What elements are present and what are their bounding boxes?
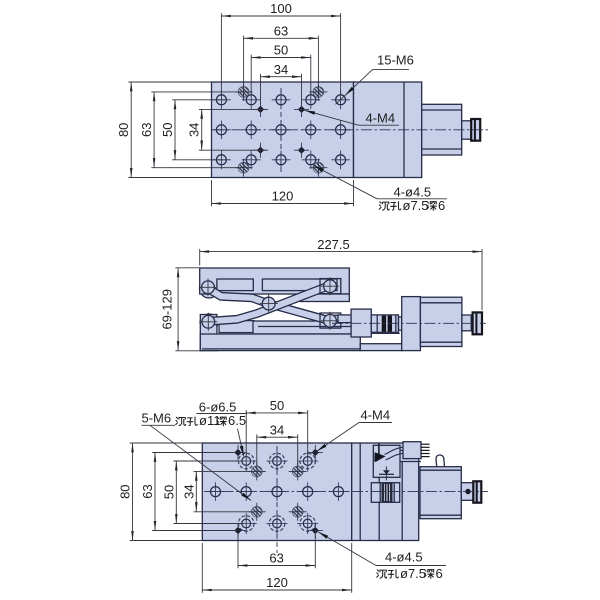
svg-text:34: 34 xyxy=(270,422,284,437)
dim 63 left xyxy=(154,453,156,531)
mid housing block xyxy=(352,443,419,541)
svg-text:6.5: 6.5 xyxy=(228,413,246,428)
dim 120 bottom xyxy=(212,203,354,205)
svg-text:50: 50 xyxy=(270,398,284,413)
top plate xyxy=(200,268,350,294)
dim 63 left xyxy=(153,92,155,168)
svg-text:50: 50 xyxy=(274,43,288,58)
drive housing block xyxy=(354,82,422,178)
vertical centerline xyxy=(276,446,278,553)
top plate right step xyxy=(300,294,349,302)
svg-text:63: 63 xyxy=(269,551,283,566)
svg-text:63: 63 xyxy=(274,24,288,39)
base body xyxy=(200,334,360,351)
svg-text:34: 34 xyxy=(274,62,288,77)
svg-text:5-M6: 5-M6 xyxy=(142,410,172,425)
ball xyxy=(465,489,470,494)
4 M4 holes xyxy=(253,102,268,117)
dim 34 top xyxy=(257,436,298,438)
vertical centerline xyxy=(280,88,282,172)
dim 63 top xyxy=(244,37,319,39)
micrometer body xyxy=(422,104,462,155)
bearing block xyxy=(402,297,421,351)
dim 80 left xyxy=(132,443,134,541)
lead screw assembly xyxy=(371,483,399,503)
motor body xyxy=(420,297,462,346)
dim 34 left xyxy=(195,471,197,511)
15 M6 tapped holes (5x3 grid) xyxy=(212,91,231,110)
svg-text:4-ø4.5: 4-ø4.5 xyxy=(385,549,423,564)
svg-text:6: 6 xyxy=(438,198,445,213)
top platform plate xyxy=(212,82,354,178)
lead screw xyxy=(371,315,398,332)
dim 50 left xyxy=(175,461,177,524)
knurled knob xyxy=(471,119,480,141)
svg-text:34: 34 xyxy=(187,123,202,137)
horizontal centerline xyxy=(213,129,490,131)
knob xyxy=(473,481,481,502)
adjuster window xyxy=(373,445,400,477)
svg-text:63: 63 xyxy=(140,484,155,498)
svg-text:120: 120 xyxy=(266,575,288,590)
switch lever vertical stem xyxy=(378,443,380,454)
top plate left pivot lobe xyxy=(200,279,219,298)
svg-text:6: 6 xyxy=(436,566,443,581)
dim 100 xyxy=(221,15,340,17)
6 counterbored o6.5 holes xyxy=(236,450,257,471)
pivot box top right xyxy=(320,279,341,294)
cable hook xyxy=(436,455,445,466)
base rail xyxy=(253,321,351,334)
structural lines xyxy=(378,477,380,540)
wiper mark xyxy=(385,467,387,481)
svg-text:15-M6: 15-M6 xyxy=(377,53,414,68)
dim 50 left xyxy=(174,100,176,160)
svg-text:100: 100 xyxy=(270,1,292,16)
base left pivot lobe xyxy=(200,314,218,332)
top plate slot 2 xyxy=(262,279,337,291)
motor block xyxy=(420,467,461,519)
scissor arm 1 xyxy=(208,289,330,321)
svg-text:227.5: 227.5 xyxy=(317,237,350,252)
base left riser xyxy=(200,315,217,351)
dim 227.5 xyxy=(200,251,482,253)
dim 120 bottom xyxy=(202,589,351,591)
4 M4 holes xyxy=(230,445,245,460)
svg-text:50: 50 xyxy=(160,123,175,137)
svg-text:ø7.5: ø7.5 xyxy=(403,198,429,213)
svg-text:50: 50 xyxy=(161,485,176,499)
pivot box bottom right xyxy=(320,313,341,328)
dim 50 top xyxy=(251,57,311,59)
pivot screws xyxy=(199,278,217,296)
shaft xyxy=(461,483,473,501)
svg-text:ø7.5: ø7.5 xyxy=(400,566,426,581)
top plate slot 1 xyxy=(217,279,253,291)
slider link xyxy=(329,315,339,322)
base right strip xyxy=(360,344,402,351)
svg-text:63: 63 xyxy=(139,123,154,137)
dim 69-129 xyxy=(177,268,179,351)
svg-text:69-129: 69-129 xyxy=(160,289,175,329)
spindle shaft xyxy=(462,121,472,139)
dim 63 bottom xyxy=(238,565,315,567)
dim 50 top xyxy=(246,412,308,414)
connector block xyxy=(400,461,421,463)
svg-text:4-M4: 4-M4 xyxy=(366,110,396,125)
scissor arm 2 xyxy=(208,285,330,321)
dim 34 left xyxy=(201,109,203,150)
dim 80 left xyxy=(130,82,132,178)
drive bracket xyxy=(351,309,371,337)
base plate xyxy=(202,443,351,541)
svg-text:80: 80 xyxy=(116,123,131,137)
housing inner line xyxy=(403,82,405,178)
svg-text:120: 120 xyxy=(272,188,294,203)
svg-text:4-M4: 4-M4 xyxy=(361,408,391,423)
centerline xyxy=(332,322,486,324)
5 M6 holes middle row xyxy=(206,482,225,501)
centerline xyxy=(204,491,488,493)
shaft xyxy=(462,315,471,331)
dim 34 top xyxy=(261,76,302,78)
4 counterbored o4.5 holes xyxy=(248,462,266,480)
switch wires xyxy=(385,447,403,454)
4 counterbored holes o4.5 xyxy=(235,83,253,101)
collar xyxy=(399,317,403,330)
knob xyxy=(473,312,482,334)
svg-text:80: 80 xyxy=(118,484,133,498)
svg-text:34: 34 xyxy=(181,484,196,498)
base slot xyxy=(219,321,254,333)
switch flag xyxy=(374,452,385,462)
